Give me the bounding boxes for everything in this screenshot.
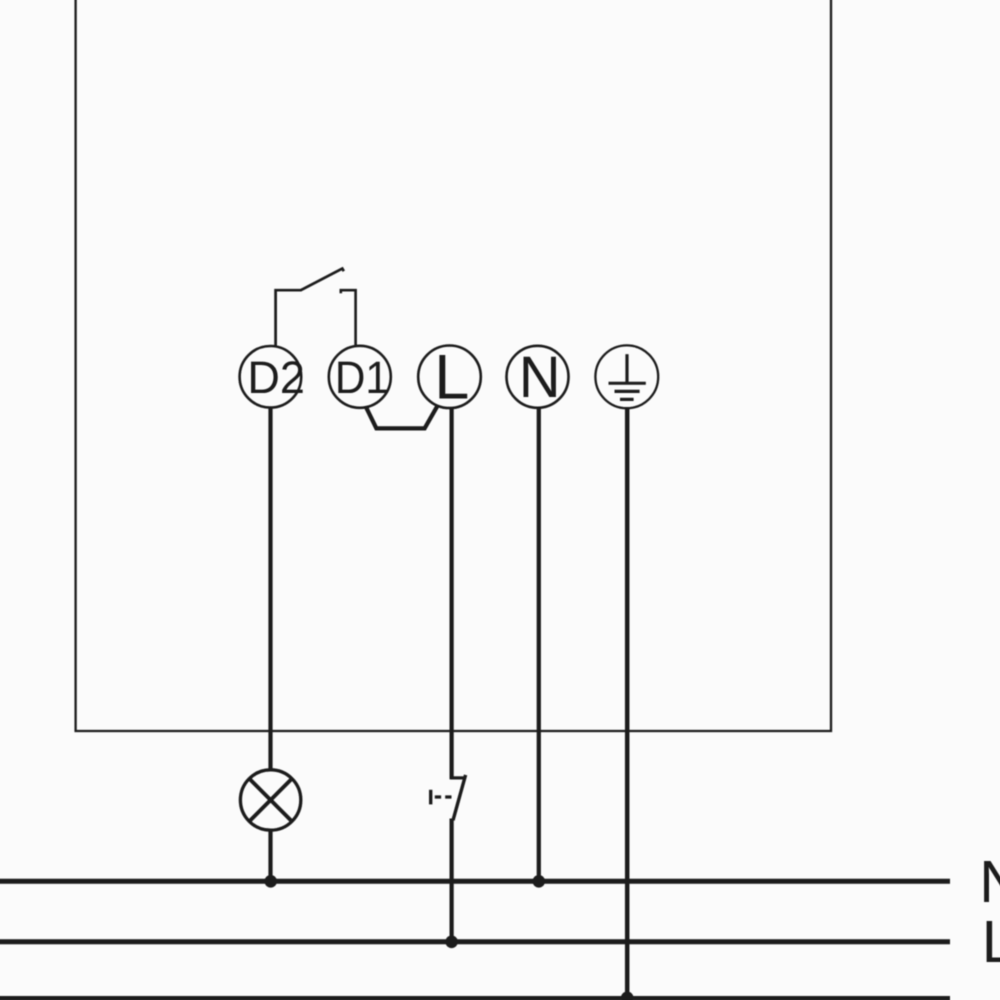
- wire D1 to L loop: [366, 406, 438, 429]
- lamp E1 circle: [240, 770, 300, 830]
- lamp E1 cross stroke 2: [249, 779, 291, 821]
- relay switch contact S2 right lead: [341, 290, 356, 346]
- device outline: [76, 0, 831, 731]
- terminal PE circle: [595, 345, 658, 408]
- svg-text:N: N: [979, 849, 1000, 915]
- terminal D1 circle: [329, 346, 391, 408]
- relay switch contact S2 left lead: [276, 290, 302, 346]
- wire N terminal down to N bus: [537, 407, 541, 881]
- svg-text:N: N: [519, 345, 561, 410]
- relay switch contact S2 blade: [301, 269, 344, 291]
- push button S1 top hook: [450, 776, 465, 779]
- PE bus wire: [0, 996, 950, 1000]
- junction dot button wire / L bus: [445, 936, 458, 949]
- terminal PE earth symbol top bar: [609, 382, 646, 385]
- push button S1 actuator dashed link: [435, 795, 455, 798]
- push button S1 actuator plate: [429, 790, 432, 805]
- svg-text:D2: D2: [247, 352, 305, 403]
- push button S1 blade: [453, 775, 466, 820]
- svg-text:L: L: [982, 909, 1000, 975]
- lamp E1 cross stroke 1: [249, 779, 291, 821]
- junction dot N wire / N bus: [533, 875, 546, 888]
- terminal PE earth symbol bottom bar: [620, 398, 634, 401]
- terminal PE earth symbol stem: [625, 354, 628, 383]
- wire L terminal down to push button: [450, 407, 454, 779]
- wire PE terminal down to PE bus: [625, 408, 630, 998]
- junction dot PE wire / PE bus: [621, 992, 634, 1000]
- wire push button down to L bus: [450, 819, 454, 942]
- terminal PE earth symbol middle bar: [615, 390, 640, 393]
- terminal N circle: [507, 346, 569, 408]
- junction dot lamp wire / N bus: [264, 875, 277, 888]
- wire lamp down to N bus: [268, 830, 272, 882]
- N bus wire: [0, 879, 950, 884]
- wire D2 down to lamp: [268, 407, 272, 770]
- svg-text:D1: D1: [335, 352, 389, 403]
- terminal L circle: [418, 346, 481, 409]
- L bus wire: [0, 939, 950, 944]
- terminal D2 circle: [240, 346, 302, 408]
- svg-text:L: L: [434, 343, 469, 413]
